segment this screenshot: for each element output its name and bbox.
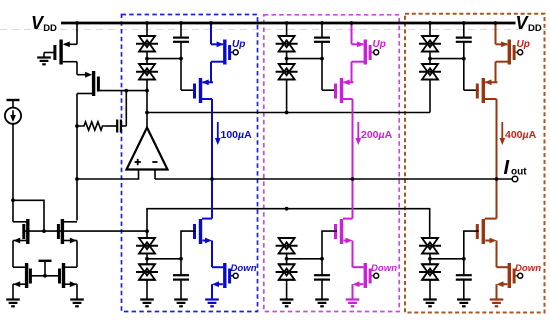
ground [346,300,360,307]
wire [495,23,497,44]
junction [11,198,15,202]
junction [494,21,498,25]
junction [75,21,79,25]
wire [180,23,182,38]
junction [351,177,355,181]
node line [147,258,181,260]
svg-text:Down: Down [231,263,257,274]
junction [145,89,149,93]
junction [43,274,47,278]
svg-text:200µA: 200µA [361,129,393,141]
gate bubble [374,273,379,278]
transistor MU3 (PMOS Up switch) [496,40,518,65]
wire [12,200,14,222]
ground [280,300,294,307]
svg-text:out: out [511,167,527,178]
current source IREF [5,108,21,124]
capacitor C2b (hold cap) [314,275,330,279]
gate bubble [233,50,238,55]
junction [145,57,149,61]
wire branch current spine [496,99,498,219]
terminal (gate bias tap) [39,260,52,262]
svg-text:400µA: 400µA [505,129,537,141]
ground [37,58,51,65]
wire [180,259,182,275]
resistor R1 [77,122,106,130]
wire M3 drain [13,221,26,223]
wire [12,124,14,201]
DAC bit-3 cell boundary (brown dashed box) [405,14,545,313]
junction [209,21,213,25]
junction [285,207,289,211]
node line [287,258,322,260]
wire cascode gate [464,89,479,91]
junction [320,257,324,261]
terminal Iout [512,176,518,182]
wire [496,284,498,299]
wire [429,280,431,300]
node line [147,58,181,60]
transistor M1 (PMOS, gate grounded) [55,40,77,65]
wire [352,241,354,268]
svg-text:I: I [504,157,510,179]
wire M5/M6 gate line [31,275,59,277]
gate bubble [233,273,238,278]
junction [179,57,183,61]
transistor MD3 (NMOS Down switch) [497,263,518,288]
wire [352,284,354,299]
wire op-amp - input [154,170,156,180]
ground [70,300,84,307]
transistor MC3b (NMOS cascode) [477,219,496,244]
wire [180,280,182,300]
wire [76,94,78,221]
transistor M3 (NMOS mirror cascode) [13,219,28,244]
junction [145,229,149,233]
diode pair D3b (anti-series) [419,64,441,80]
junction [320,57,324,61]
wire branch current spine [352,99,354,219]
wire [463,280,465,300]
capacitor C3b (hold cap) [456,275,472,279]
wire [495,62,497,83]
transistor MU2 (PMOS Up switch) [352,40,374,65]
diode pair D3d (anti-series) [419,264,441,280]
junction [179,21,183,25]
ground [315,300,329,307]
diode pair D3a (anti-series) [419,36,441,52]
wire [463,42,465,90]
svg-text:DD: DD [43,23,57,34]
current arrow 400uA [499,122,505,145]
wire [463,259,465,275]
wire M2 gate to cascode bias net [99,90,147,92]
transistor MC3a (PMOS cascode) [477,78,497,103]
wire [180,42,182,90]
junction [285,111,289,115]
DAC bit-1 cell boundary (blue dashed box) [122,15,258,312]
wire [429,23,431,36]
junction [124,89,128,93]
junction [462,57,466,61]
wire [351,23,353,44]
svg-text:Up: Up [517,39,530,50]
wire op-amp + input [77,170,139,180]
wire cascode gate [181,89,196,91]
current arrow 100uA [215,122,221,145]
transistor MC2b (NMOS cascode) [336,219,353,244]
wire [321,23,323,38]
ground [140,300,154,307]
transistor MC1b (NMOS cascode) [195,219,213,244]
VDD power rail [61,22,516,25]
junction [428,257,432,261]
capacitor C2t (hold cap) [314,38,330,42]
wire [146,23,148,36]
transistor MD2 (NMOS Down switch) [353,263,374,288]
junction [462,21,466,25]
wire [429,80,431,113]
node line [430,258,464,260]
wire [44,52,55,54]
junction [285,257,289,261]
wire [12,241,14,268]
transistor MD1 (NMOS Down switch) [212,263,233,288]
junction [75,177,79,181]
transistor MC2a (PMOS cascode) [336,78,354,103]
diode pair D3c (anti-series) [419,238,441,254]
wire cascode gate [464,231,479,259]
diode pair D2b (anti-series) [276,64,298,80]
wire [286,52,288,65]
transistor M5 (NMOS mirror) [13,263,30,300]
gate bubble [374,50,379,55]
wire [146,52,148,65]
net Iout line [155,178,512,180]
ground [457,300,471,307]
junction [428,21,432,25]
transistor MU1 (PMOS Up switch) [211,40,233,65]
current arrow 200uA [355,122,361,145]
ground [205,300,219,307]
junction [320,21,324,25]
wire [321,259,323,275]
wire [351,62,353,83]
wire op-amp output bias line [147,112,430,114]
junction [179,257,183,261]
junction [428,57,432,61]
gate bubble [518,50,523,55]
junction [210,177,214,181]
svg-text:Down: Down [371,263,397,274]
gate bubble [518,273,523,278]
wire [125,91,127,126]
capacitor C1 [106,120,127,133]
wire [211,241,213,268]
transistor M2 (PMOS cascode, bias) [77,71,98,96]
wire [146,231,148,238]
junction [462,257,466,261]
svg-text:Down: Down [515,263,541,274]
diode pair D2d (anti-series) [276,264,298,280]
node line [430,58,464,60]
diode pair D1c (anti-series) [136,238,158,254]
wire cascode gate [322,231,337,259]
wire cascode gate [181,231,196,259]
junction [285,57,289,61]
wire [146,280,148,300]
ground [174,300,188,307]
wire [286,254,288,265]
capacitor C1b (hold cap) [173,275,189,279]
wire [321,42,323,90]
wire M3/M4 gate line [24,230,147,232]
junction [145,21,149,25]
wire [210,62,212,83]
op-amp A1 [127,128,168,170]
junction [42,229,46,233]
junction [285,21,289,25]
svg-text:DD: DD [528,23,542,34]
wire [76,62,78,75]
svg-text:100µA: 100µA [221,129,253,141]
wire [146,254,148,265]
ground [490,300,504,307]
junction [145,257,149,261]
svg-text:Up: Up [373,39,386,50]
wire [286,280,288,300]
capacitor C3t (hold cap) [456,38,472,42]
diode pair D1a (anti-series) [136,36,158,52]
terminal (supply tap) [7,99,20,101]
junction [350,21,354,25]
diode pair D2a (anti-series) [276,36,298,52]
transistor MC1a (PMOS cascode) [195,78,214,103]
ground [423,300,437,307]
wire [211,284,213,299]
wire [76,241,78,268]
node line [287,58,322,60]
wire [0,29,550,31]
transistor M6 (NMOS mirror) [60,263,78,300]
ground [6,300,20,307]
diode pair D1b (anti-series) [136,64,158,80]
wire [463,23,465,38]
wire branch current spine [211,99,213,219]
junction [495,177,499,181]
wire [146,80,148,128]
transistor M4 (NMOS mirror cascode) [58,219,77,244]
wire cascode gate [322,89,337,91]
wire [286,23,288,36]
diode pair D1d (anti-series) [136,264,158,280]
diode pair D2c (anti-series) [276,238,298,254]
DAC bit-2 cell boundary (magenta dashed box) [264,15,399,312]
wire bottom mirror gate bias line [147,209,430,238]
wire [286,80,288,113]
wire IREF to mirror gates [13,200,44,231]
wire [76,23,78,44]
junction [145,111,149,115]
wire [496,241,498,268]
wire [429,52,431,65]
capacitor C1t (hold cap) [173,38,189,42]
svg-text:Up: Up [232,39,245,50]
junction [75,124,79,128]
wire [210,23,212,44]
wire [429,254,431,265]
wire [321,280,323,300]
